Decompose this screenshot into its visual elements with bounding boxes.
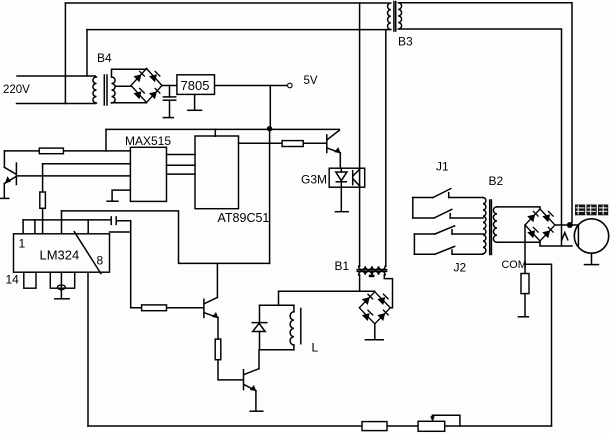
svg-text:G3M: G3M bbox=[301, 173, 327, 187]
svg-text:220V: 220V bbox=[3, 84, 30, 96]
svg-text:7805: 7805 bbox=[181, 78, 210, 93]
svg-text:14: 14 bbox=[6, 273, 20, 287]
svg-text:1: 1 bbox=[19, 237, 26, 251]
svg-text:AT89C51: AT89C51 bbox=[218, 211, 270, 225]
svg-text:5V: 5V bbox=[304, 75, 318, 87]
svg-text:B4: B4 bbox=[97, 51, 112, 65]
svg-text:LM324: LM324 bbox=[40, 248, 80, 263]
svg-text:8: 8 bbox=[97, 254, 104, 268]
svg-text:B3: B3 bbox=[398, 35, 413, 49]
svg-text:L: L bbox=[312, 341, 319, 355]
svg-text:J2: J2 bbox=[454, 261, 467, 275]
svg-text:MAX515: MAX515 bbox=[125, 134, 171, 148]
svg-text:COM: COM bbox=[502, 259, 527, 271]
svg-text:B2: B2 bbox=[489, 174, 504, 188]
svg-text:J1: J1 bbox=[436, 160, 449, 174]
svg-text:B1: B1 bbox=[335, 259, 350, 273]
